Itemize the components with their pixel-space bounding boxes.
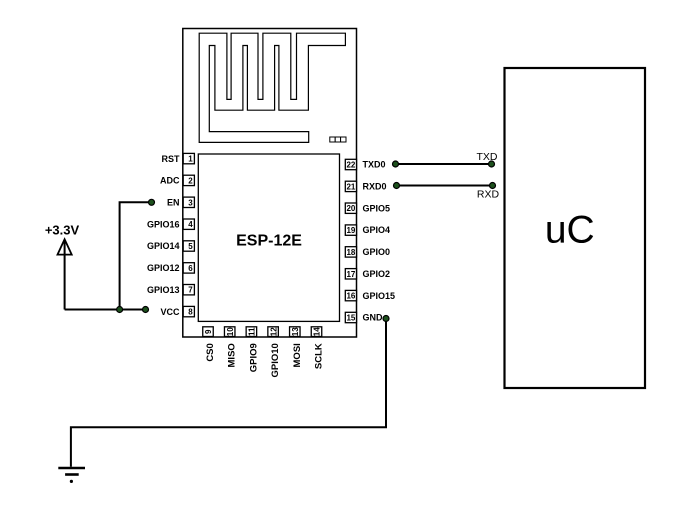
pin 20 box [345,203,356,213]
ground symbol dot [70,480,73,483]
svg-text:GPIO16: GPIO16 [147,219,180,229]
pin 21 box [345,181,356,191]
pin 8 box [183,306,194,316]
pin 14 box [311,327,322,337]
svg-text:6: 6 [188,264,193,273]
node RXD dot right [490,183,496,189]
pin 13 box [290,327,301,337]
svg-text:MISO: MISO [227,343,238,367]
svg-text:ESP-12E: ESP-12E [236,233,302,250]
pin 2 box [183,175,194,185]
pin 4 box [183,219,194,229]
module U1 inner shield box [198,154,339,321]
node TXD0 dot left [393,161,399,167]
ground symbol bar 1 [58,467,85,470]
via pad 2 [335,137,340,142]
wire 3.3V horizontal to VCC [65,309,146,311]
pin 10 box [224,327,235,337]
svg-text:13: 13 [291,327,300,336]
pin 22 box [345,159,356,169]
svg-text:ADC: ADC [160,176,180,186]
node RXD0 dot left [394,183,400,189]
svg-text:22: 22 [346,161,355,170]
wire TXD0 to uC [396,163,492,165]
pin 15 box [345,312,356,322]
pin 16 box [345,290,356,300]
node GND dot [383,316,389,322]
svg-text:RXD0: RXD0 [363,182,387,192]
svg-text:3: 3 [188,198,193,207]
svg-text:GPIO9: GPIO9 [248,343,259,372]
svg-text:5: 5 [188,242,193,251]
power symbol +3.3V arrow [58,239,72,254]
svg-text:GPIO13: GPIO13 [147,285,180,295]
node EN dot [149,199,155,205]
module U1 ESP-12E body outline [183,29,357,338]
svg-text:GND: GND [363,313,384,323]
svg-text:10: 10 [226,327,235,336]
pin 18 box [345,247,356,257]
wire EN to junction (net EN) [120,202,152,309]
via pad 3 [341,137,346,142]
svg-text:TXD: TXD [477,151,498,163]
svg-text:CS0: CS0 [205,343,216,361]
pin 1 box [183,153,194,163]
pin 3 box [183,197,194,207]
svg-text:18: 18 [346,248,355,257]
via pad 1 [330,137,335,142]
svg-text:GPIO5: GPIO5 [363,203,391,213]
svg-text:VCC: VCC [160,307,180,317]
pin 12 box [268,327,279,337]
wire +3.3V stem [64,241,66,310]
node junction dot (3.3V rail) [117,307,123,313]
svg-text:14: 14 [313,327,322,336]
ground symbol bar 2 [65,473,79,476]
svg-text:7: 7 [188,286,193,295]
svg-text:20: 20 [346,204,355,213]
antenna meander trace [199,33,345,142]
svg-text:19: 19 [346,226,355,235]
node VCC dot [143,307,149,313]
pin 7 box [183,285,194,295]
svg-text:+3.3V: +3.3V [45,223,80,238]
svg-text:21: 21 [346,182,355,191]
svg-text:GPIO4: GPIO4 [363,225,391,235]
svg-text:9: 9 [204,329,213,334]
wire GND net [71,319,386,467]
svg-text:4: 4 [188,220,193,229]
svg-text:12: 12 [269,327,278,336]
svg-text:SCLK: SCLK [314,343,325,369]
svg-text:uC: uC [545,209,595,252]
svg-text:GPIO15: GPIO15 [363,291,396,301]
svg-text:GPIO0: GPIO0 [363,247,391,257]
svg-text:TXD0: TXD0 [363,160,386,170]
wire RXD0 to uC [397,185,493,187]
pin 6 box [183,263,194,273]
svg-text:RXD: RXD [477,189,500,201]
svg-text:GPIO10: GPIO10 [270,343,281,377]
pin 19 box [345,225,356,235]
svg-text:1: 1 [188,155,193,164]
svg-text:GPIO2: GPIO2 [363,269,391,279]
svg-text:GPIO14: GPIO14 [147,241,180,251]
pin 11 box [246,327,257,337]
svg-text:MOSI: MOSI [292,343,303,367]
pin 17 box [345,269,356,279]
svg-text:8: 8 [188,308,193,317]
svg-text:EN: EN [167,198,180,208]
svg-text:11: 11 [248,327,257,336]
svg-text:RST: RST [162,154,181,164]
pin 5 box [183,241,194,251]
pin 9 box [203,327,214,337]
node TXD dot right [489,161,495,167]
svg-text:2: 2 [188,176,193,185]
uC box U2 [505,68,646,388]
svg-text:17: 17 [346,270,355,279]
svg-text:16: 16 [346,292,355,301]
svg-text:GPIO12: GPIO12 [147,263,180,273]
svg-text:15: 15 [346,314,355,323]
